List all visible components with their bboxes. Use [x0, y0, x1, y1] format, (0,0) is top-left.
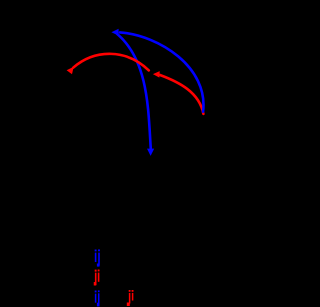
node red subscript ji row2: [94, 270, 100, 286]
wire: red arrow R2 curve from lower-right subscript to mid arrowhead: [160, 75, 203, 114]
node red subscript ji row3 right: [127, 290, 134, 306]
node blue subscript ij row3: [95, 290, 100, 306]
wire: blue arrow B2 curve from top subscript down to mid arrowhead: [117, 34, 151, 149]
node B2 arrowhead: [147, 149, 154, 156]
wire: red arrow R1 arc from mid subscript to left arrowhead: [73, 54, 149, 71]
node R2 arrowhead: [153, 71, 160, 78]
node R1 arrowhead: [67, 67, 74, 74]
node blue subscript ij row1: [95, 249, 100, 266]
node B1 arrowhead: [111, 29, 118, 36]
wire: blue arrow B1 curve from lower-right subscript to top arrowhead: [120, 32, 203, 111]
